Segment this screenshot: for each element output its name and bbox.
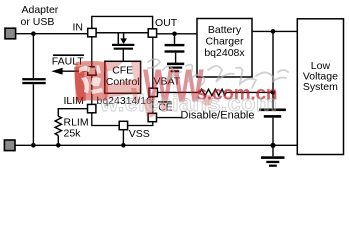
pin VSS: [119, 121, 127, 129]
wire ILIM to RLIM: [58, 109, 87, 117]
transistor Q1 gate bar: [114, 48, 133, 50]
CE Control block: [105, 61, 141, 93]
wire FAULT: [60, 70, 88, 72]
wire C1 to ground rail: [32, 84, 34, 145]
watermark logo white cutouts: [79, 65, 103, 94]
battery charger U2 box: [197, 19, 252, 78]
node rail RLIM junction: [56, 143, 61, 148]
svg-text:VSS: VSS: [129, 128, 150, 140]
wire resistor to bus node: [226, 91, 273, 93]
wire CE to Disable/Enable: [157, 117, 181, 119]
wire VBAT to resistor: [158, 91, 200, 93]
pin CE: [148, 113, 156, 121]
capacitor C2 (OUT): [165, 44, 185, 46]
input pad (adapter): [5, 28, 16, 39]
pin VBAT: [149, 88, 157, 96]
low voltage system box: [297, 19, 343, 155]
wire RLIM to rail: [57, 136, 59, 146]
label FAULT with overline: [53, 54, 84, 56]
wire C3 to rail: [272, 118, 274, 146]
wire VSS to rail: [122, 130, 124, 145]
node VBAT bus junction: [271, 90, 276, 95]
watermark gray cursive strokes: [148, 59, 288, 88]
svg-text:Charger: Charger: [206, 36, 244, 48]
svg-text:Adapter: Adapter: [22, 4, 59, 16]
svg-text:or USB: or USB: [21, 16, 55, 28]
wire IN to OUT internal: [96, 32, 148, 34]
bottom pad: [4, 140, 15, 151]
capacitor C1 (input): [22, 78, 45, 80]
ground rail: [16, 144, 298, 146]
node input junction: [31, 31, 36, 36]
transistor Q1 internal pass FET drain stub: [117, 33, 119, 44]
svg-text:25k: 25k: [64, 127, 82, 139]
transistor Q1 source stub with body arrow: [123, 33, 125, 39]
wire Q1 gate to CE Control: [122, 50, 124, 62]
transistor Q1 channel bar: [112, 44, 134, 46]
node rail C1 junction: [31, 143, 36, 148]
svg-text:Battery: Battery: [208, 24, 242, 36]
watermark pink WWW letters: [143, 61, 204, 112]
watermark red logo block: [74, 61, 142, 102]
node bus top junction: [271, 29, 276, 34]
pin IN: [88, 28, 96, 36]
node OUT junction: [172, 32, 177, 37]
wire bypass top loop IN to OUT: [92, 16, 153, 28]
resistor (VBAT to system bus) horizontal zigzag: [200, 89, 226, 95]
svg-text:IN: IN: [73, 22, 84, 34]
node rail bus junction: [270, 143, 275, 148]
pin OUT: [148, 29, 156, 37]
capacitor C3 (system bus): [259, 109, 286, 112]
resistor RLIM 25k vertical zigzag: [55, 116, 61, 135]
ground G2 (system): [272, 145, 274, 156]
wire OUT to battery charger: [157, 33, 197, 35]
svg-text:System: System: [303, 81, 338, 93]
pin ILIM: [88, 104, 96, 112]
wire C2 to ground: [175, 53, 177, 63]
wire right bus vertical: [272, 31, 274, 108]
svg-text:bq2408x: bq2408x: [204, 47, 245, 59]
label CE with overline: [158, 101, 171, 103]
wire input to IN pin: [16, 33, 88, 35]
IC U1 bq24314 outline: [92, 33, 153, 126]
wire input cap branch: [32, 34, 34, 78]
ground G1 (under C2): [167, 63, 184, 66]
wire charger output to low voltage system: [252, 30, 297, 32]
svg-text:w.elecians.com: w.elecians.com: [99, 90, 277, 116]
svg-text:OUT: OUT: [155, 17, 178, 29]
wire OUT cap branch: [174, 34, 176, 44]
watermark pink glyph fragments: [131, 88, 213, 118]
node rail VSS junction: [121, 143, 126, 148]
pin FAULT: [88, 67, 96, 75]
arrow FAULT head: [51, 68, 62, 75]
